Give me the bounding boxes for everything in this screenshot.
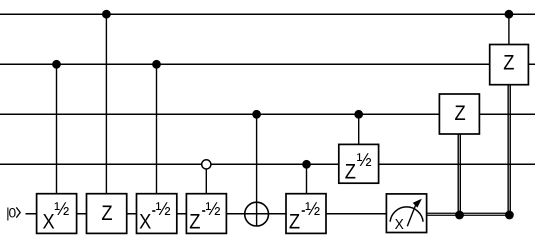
control wire col1 (q1 to gate X^1/2)	[56, 64, 58, 193]
wire q1	[0, 63, 535, 65]
gate Z (classically controlled) on q2	[439, 94, 479, 134]
anti-control (open circle) col4 on q3	[202, 160, 211, 169]
wire q4 (ancilla |0> line)	[26, 213, 387, 215]
svg-text:X: X	[43, 210, 55, 234]
control wire col5 (q2 to CNOT target)	[256, 114, 258, 226]
svg-text:Z: Z	[101, 201, 112, 225]
measurement gate (X basis meter) on q4	[386, 194, 426, 233]
svg-text:½: ½	[305, 199, 320, 219]
svg-text:Z: Z	[503, 51, 514, 75]
control dot col1 on q1	[52, 60, 61, 69]
gate Z^1/2 on q3	[339, 144, 379, 183]
control dot col2 on q0	[102, 10, 111, 19]
svg-text:½: ½	[357, 150, 372, 170]
gate X^1/2 on q4	[37, 194, 77, 234]
control wire col3 (q1 to gate X^-1/2)	[156, 64, 158, 193]
control wire col10 (q0 to classically-fed Z on q1)	[508, 14, 510, 44]
control dot col3 on q1	[152, 60, 161, 69]
control wire col6 (q3 to gate Z^-1/2 #2)	[306, 164, 308, 193]
wire q2	[0, 113, 535, 115]
CNOT target circle on q4	[245, 202, 269, 226]
classical double wire (vertical) col10 to gate Z on q1	[508, 85, 510, 216]
control dot col6 on q3	[302, 160, 311, 169]
classical junction dot col10	[505, 211, 514, 220]
gate Z on q4	[87, 194, 127, 234]
classical double wire (vertical) col9 to gate Z on q2	[458, 134, 460, 216]
svg-text:Z: Z	[189, 210, 200, 234]
gate Z^-1/2 #2 on q4	[286, 194, 326, 234]
gate X^-1/2 on q4	[137, 194, 177, 234]
classical double wire (horizontal) from meter to col10	[427, 213, 510, 215]
svg-text:Z: Z	[289, 210, 300, 234]
control dot col7 on q2	[354, 110, 363, 119]
control dot col5 on q2	[252, 110, 261, 119]
control wire col7 (q2 to gate Z^1/2)	[358, 114, 360, 144]
gate Z^-1/2 on q4	[186, 194, 226, 234]
ket |0> input label	[6, 205, 20, 220]
control wire col4 (q3 to gate Z^-1/2)	[205, 164, 207, 193]
control dot col10 on q0	[505, 10, 514, 19]
svg-text:½: ½	[156, 199, 171, 219]
svg-text:0: 0	[9, 205, 17, 220]
wire q3	[0, 163, 535, 165]
classical junction dot col9	[455, 211, 464, 220]
svg-text:½: ½	[206, 199, 221, 219]
gate Z (classically controlled) on q1	[490, 45, 529, 85]
control wire col2 (q0 to gate Z)	[105, 14, 107, 194]
svg-text:½: ½	[54, 199, 69, 219]
svg-text:Z: Z	[455, 101, 466, 125]
svg-text:X: X	[395, 217, 405, 233]
wire q0 (top qubit line)	[0, 13, 535, 15]
svg-text:Z: Z	[345, 160, 356, 184]
svg-text:X: X	[139, 210, 151, 234]
